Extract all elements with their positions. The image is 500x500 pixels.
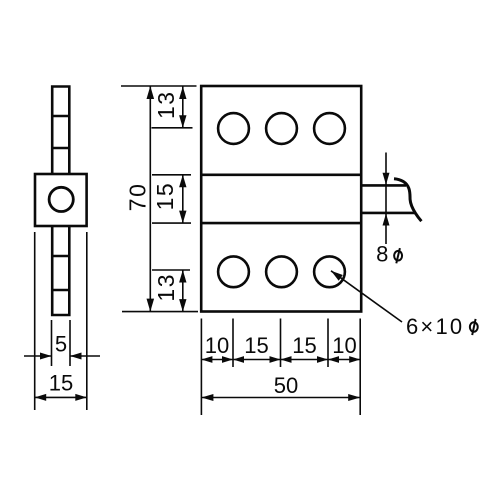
svg-text:15: 15 (152, 182, 178, 211)
svg-text:5: 5 (55, 332, 67, 357)
svg-text:15: 15 (244, 333, 268, 358)
svg-text:15: 15 (49, 370, 73, 395)
svg-text:10: 10 (332, 333, 356, 358)
svg-text:10: 10 (205, 333, 229, 358)
svg-text:8: 8 (376, 242, 388, 267)
svg-text:6×10: 6×10 (406, 314, 464, 339)
svg-text:50: 50 (274, 373, 298, 398)
svg-text:15: 15 (292, 333, 316, 358)
svg-text:13: 13 (153, 273, 179, 302)
svg-text:13: 13 (153, 90, 179, 119)
svg-text:70: 70 (124, 183, 150, 212)
